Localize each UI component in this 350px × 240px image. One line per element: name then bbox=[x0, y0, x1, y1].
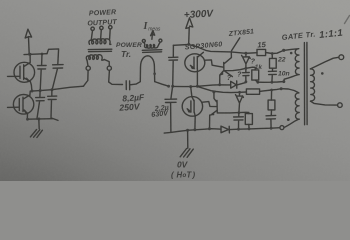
transformer T2 current transformer primary loop bbox=[140, 56, 154, 82]
wire node row upper cell bbox=[224, 67, 255, 71]
wire lower rail branch (to bottom cell) bbox=[197, 86, 246, 92]
transistor Q5 (lower IGBT) bbox=[182, 87, 202, 130]
transformer T1 secondary winding bbox=[89, 39, 111, 45]
junction W2 top lead bbox=[280, 87, 283, 90]
wire W3 bottom lead to terminal bbox=[311, 101, 338, 105]
transformer T3 winding W3 (secondary, right) bbox=[310, 69, 314, 101]
junction zener2/rail bbox=[238, 91, 241, 94]
ground (0V HOT) bbox=[180, 130, 193, 157]
junction Q6 collector/rail bbox=[212, 91, 215, 94]
resistor R4 (bottom cell series, on rail) bbox=[246, 89, 281, 95]
junction Q1 collector/top bus bbox=[29, 53, 32, 56]
resistor R6 (lower snubber 22) bbox=[268, 90, 275, 110]
transformer T3 gate transformer core bbox=[304, 42, 307, 124]
wire mid rail (half-bridge midpoint, upper drive row) bbox=[173, 85, 231, 87]
junction ground/bottom rail bbox=[186, 129, 189, 132]
capacitor C7 2.2u 630V (lower divider cap) bbox=[165, 86, 177, 132]
capacitor C10 (lower cell) bbox=[234, 113, 244, 130]
junction Q4 emitter/mid wire bbox=[218, 83, 221, 86]
junction diode row dots bbox=[245, 80, 248, 83]
junction +300V/top rail bbox=[187, 43, 190, 46]
wire mid node (left half-bridge midpoint) bbox=[32, 86, 84, 91]
phase dot W2 bbox=[287, 118, 290, 121]
transformer T2 secondary terminals bbox=[142, 39, 162, 44]
diode D1 (upper cell) bbox=[231, 81, 246, 88]
wire W3 top lead to terminal bbox=[310, 57, 338, 69]
zener Z1 (upper) bbox=[242, 53, 251, 68]
junction Q4 collector/mid bbox=[189, 85, 192, 88]
paper grain overlay bbox=[0, 0, 350, 181]
node +BUS arrow (top-left supply arrow) bbox=[25, 29, 31, 54]
junction node row/zener-cap bbox=[245, 67, 248, 70]
junction R5/bottom rail bbox=[248, 127, 251, 130]
transformer T1 core bbox=[88, 49, 112, 52]
junction 22/top rail bbox=[271, 52, 274, 55]
wire Q2 emitter bottom bbox=[27, 118, 52, 121]
ground (left block) bbox=[30, 119, 42, 138]
wire Q3 gate to Q4 base bbox=[205, 60, 224, 67]
paper background bbox=[0, 0, 350, 181]
junction Q1 emitter/mid bbox=[31, 90, 34, 93]
transformer T3 winding W1 (upper primary) bbox=[284, 49, 300, 82]
capacitor C5 8.2uF series cap bbox=[126, 81, 140, 90]
node Imeas arrow bbox=[151, 31, 155, 40]
junction divider/mid wire bbox=[171, 85, 174, 88]
terminal W2 bottom (open circle on 0V rail) bbox=[280, 126, 284, 130]
wire upper cell bottom row bbox=[258, 81, 284, 84]
transformer T3 winding W2 (lower primary) bbox=[281, 89, 299, 128]
resistor R5 (lower cell 1k) bbox=[245, 114, 252, 129]
transistor Q2 (IGBT lower-left) bbox=[13, 91, 33, 119]
transformer T2 core bbox=[142, 50, 162, 53]
wire gate stub Q2 bbox=[8, 106, 20, 108]
capacitor C1 (upper-left bus cap) bbox=[37, 54, 46, 90]
label pointer line ZTX851 bbox=[232, 38, 240, 51]
terminal W3 bottom bbox=[338, 103, 343, 108]
terminal W3 top bbox=[339, 55, 344, 60]
junction C11/bottom rail bbox=[270, 127, 273, 130]
capacitor C2 (upper-right bus cap) bbox=[52, 65, 63, 90]
phase dot W3 bbox=[321, 72, 324, 75]
junction W1 top lead bbox=[282, 49, 285, 52]
capacitor C4 (lower-right bus cap) bbox=[48, 90, 58, 121]
capacitor C9 10n (upper snubber) bbox=[268, 68, 276, 82]
capacitor C8 ? (upper cell) bbox=[243, 68, 250, 82]
wire jog to cap C2 bbox=[47, 49, 59, 65]
transformer T1 primary winding bbox=[86, 55, 104, 61]
junction on CT right leg bbox=[153, 72, 156, 75]
junction ground/emitter wire bbox=[37, 118, 40, 121]
junction R6/rail2 bbox=[270, 89, 273, 92]
zener Z2 (lower) bbox=[236, 92, 244, 112]
transformer T1 primary terminals bbox=[83, 60, 122, 87]
wire Q5 gate to Q6 base bbox=[202, 102, 216, 107]
resistor R3 22 (upper snubber) bbox=[270, 54, 277, 69]
transistor Q6 (lower driver BJT, mirrored) bbox=[210, 92, 218, 129]
junction emitter corner bbox=[26, 118, 29, 121]
capacitor C6 (upper divider cap) bbox=[169, 45, 178, 86]
resistor R1 15 (top rail) bbox=[257, 49, 266, 55]
phase dot W1 bbox=[290, 52, 293, 55]
capacitor C11 (lower snubber 10n) bbox=[266, 110, 276, 128]
junction node row2 bbox=[238, 111, 241, 114]
junction CT-out/mid wire bbox=[167, 85, 170, 88]
wire top rail (+300V) bbox=[173, 45, 283, 54]
junction C1 bottom/mid bbox=[39, 89, 42, 92]
junction 10n/bottom row bbox=[271, 81, 274, 84]
junction at C1/top bus bbox=[41, 53, 44, 56]
wire node row lower cell bbox=[217, 112, 249, 113]
wire top bus (left block) bbox=[24, 53, 47, 56]
node +300V arrow bbox=[186, 18, 193, 44]
transistor Q3 SGP30N60 (upper IGBT) bbox=[185, 52, 205, 86]
wire gate stub Q1 bbox=[8, 75, 20, 77]
wire bottom rail (0V) bbox=[164, 128, 280, 133]
junction C2 bottom/mid bbox=[50, 88, 53, 91]
junction C10/bottom rail bbox=[237, 128, 240, 131]
resistor R2 1k (upper cell) bbox=[252, 70, 259, 82]
transformer T2 secondary winding bbox=[145, 44, 159, 48]
stray pen mark top-right corner bbox=[345, 16, 350, 24]
junction Q5 emitter/bottom rail bbox=[193, 128, 196, 131]
junction zener/top rail bbox=[244, 52, 247, 55]
junction Q6 emitter/bottom rail bbox=[208, 127, 211, 130]
transistor Q4 ZTX851 (upper driver BJT) bbox=[220, 52, 233, 84]
transformer T1 POWER Tr. output terminals bbox=[91, 26, 112, 40]
junction W1 bottom lead bbox=[282, 80, 285, 83]
transistor Q1 (IGBT upper-left) bbox=[14, 55, 35, 91]
wire CT out to right bbox=[155, 82, 169, 87]
diode D2 (bottom rail) bbox=[221, 126, 229, 133]
junction Q3 emitter/mid bbox=[196, 85, 199, 88]
capacitor C3 (lower-left bus cap) bbox=[36, 91, 45, 120]
junction at arrow/top bus bbox=[28, 53, 31, 56]
